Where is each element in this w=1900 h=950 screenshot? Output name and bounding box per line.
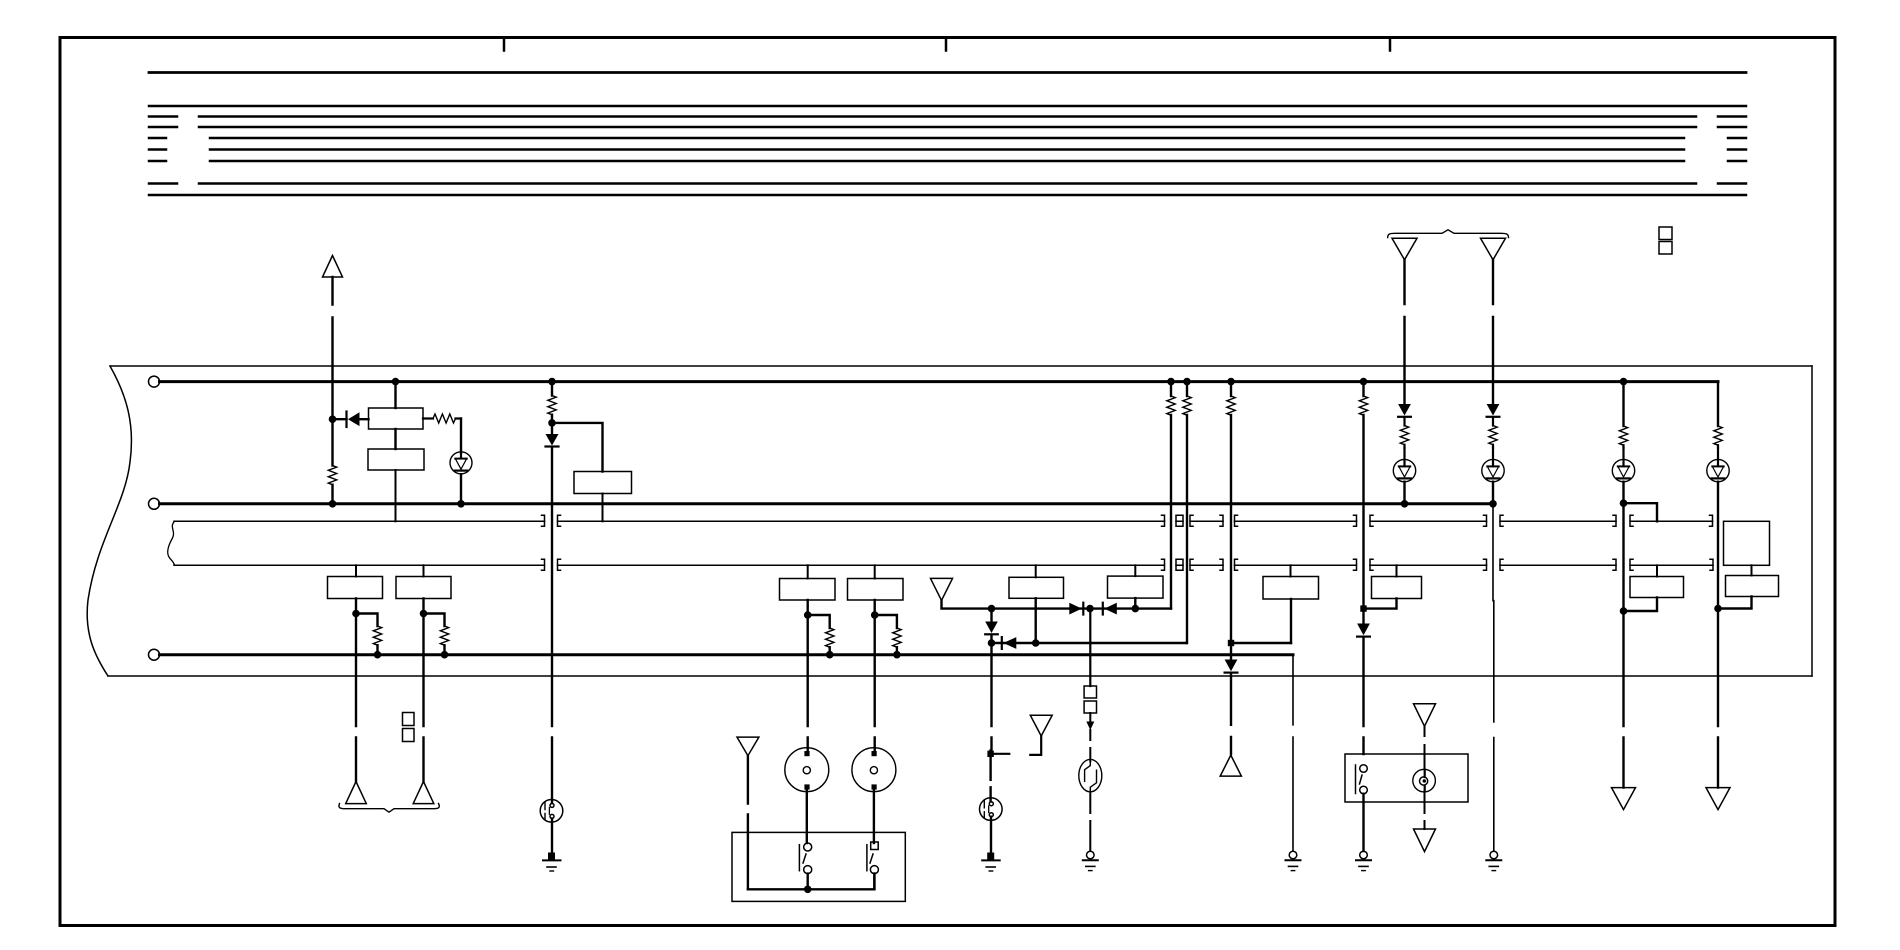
gauge M1 [785,748,829,792]
wire to bulb L3 [1089,730,1091,762]
resistor R11 (vertical x=1187) [1186,382,1188,396]
wire elbow to resistor R7 [424,614,445,627]
brace under triangles B,C [339,804,439,813]
node dot x=991 on y=608 [988,605,996,613]
wire band to relay K7 [1134,565,1136,576]
node dot x=874 elbow [871,611,879,619]
node square dot x=990 y=753 [987,751,993,757]
node dot bus3 x=377 [374,651,382,659]
node dot bus2 x=461 [457,500,465,508]
page connector triangle F (up) [1220,755,1241,776]
wire x=1623 down [1622,382,1624,426]
harness wire 7 [149,160,1746,163]
page connector triangle I (down) [1030,715,1052,736]
node dot bus1 x=1171 [1167,378,1175,386]
gauge M2 [852,748,896,792]
wire band to box K3 [807,565,809,578]
node dot x=1090 on y=608 [1086,605,1094,613]
relay box K11 [1630,577,1684,598]
connector square pair top right [1659,227,1672,240]
relay box R1b [368,449,424,470]
lamp L2 inside K10 [1413,769,1436,792]
node dot bus2 x=332 [329,500,337,508]
wire S5 to ground [990,817,992,853]
wire band to connector box K1 [355,565,357,576]
resistor R9 (vertical) [893,628,901,647]
node dot bus3 x=444 [441,651,449,659]
relay box K6 [1009,577,1064,598]
wire band to relay K8 [1290,565,1292,576]
harness wire 5 [149,137,1746,140]
wire band to relay K13 [1751,565,1753,575]
node dot x=807 elbow [804,611,812,619]
ground G1 (solid) [543,853,561,872]
wire x=1171 down to y=608 [1170,415,1172,609]
resistor R15 (vertical x=1493) [1492,418,1494,448]
wire triangle K down [1492,260,1494,404]
connector mark at x=1718 top line [1710,515,1713,526]
connector square pair left [403,713,415,726]
node dot bottom rail [804,886,812,894]
page connector triangle G (down) above lamp [1414,704,1436,727]
wire band to box K4 [874,565,876,578]
wire gauge M2 to switch [873,789,875,844]
wire bus3 [160,653,1294,656]
wire x=1090 from y=608 wire down [1089,609,1091,686]
wire x=1363 down [1362,415,1364,624]
connector marks at x=1363 bottom line [1354,559,1374,570]
node dot x=991 on y=642 [988,639,996,647]
wire x=1187 down elbow to y=642 [1185,415,1188,643]
wire S3 to bottom rail [873,874,875,890]
connector marks at x=1623 top line [1613,515,1633,526]
bulb L5 [1482,448,1504,482]
node dot bus1 x=395 [392,378,400,386]
node dot bus3 x=829 [826,651,834,659]
wire from triangle A down [331,277,333,419]
wire triangle J down [1403,260,1405,404]
resistor R13 (vertical x=1363) [1362,382,1364,396]
node dot bus3 x=896 [893,651,901,659]
wire K11 down elbow to x=1623 [1624,598,1658,612]
connector mark pair at x=552 bottom line [542,559,561,570]
wire R1b down to band [395,470,397,521]
wire L3 to ground [1089,792,1091,851]
bulb L6 [1612,448,1634,482]
page connector triangle H (down) below lamp [1414,829,1436,852]
diode D3 (pointing down) on x=991 [985,609,998,643]
page connector triangle M (down) [1706,788,1730,810]
diode D8 (pointing down) on x=1363 [1357,624,1370,755]
connector marks at x=1231 top line [1220,515,1238,526]
ground G6 (circle type) [1486,851,1501,870]
wire x=991 down across band edge [990,643,992,750]
wire K2 down [422,599,424,782]
wire x=552 down through band [551,448,553,804]
wire elbow to resistor R8 [808,615,830,628]
resistor R3 (vertical on x=332) [331,419,333,504]
diode D9 (pointing down) x=1404 [1398,404,1411,417]
node dot x=1623 y=503 [1620,499,1628,507]
harness wire 2 [149,105,1746,108]
connector marks at x=1493 top line [1484,515,1504,526]
wire band to relay K9 [1396,565,1398,576]
switch S1 (circle) [540,800,563,823]
small arrow marker x=1091 [1086,722,1094,731]
connector box K2 [396,577,451,599]
node dot x=1035 on y=642 [1032,639,1040,647]
relay box K8 [1263,577,1319,600]
wire triangle E elbow to x=1171 [942,600,1172,608]
wire x=1293 bus3 corner down [1292,655,1294,851]
wire bulb L1 to bus2 [460,474,462,504]
connector box K1 [328,577,383,599]
ground G5 (circle type) [1286,851,1301,870]
resistor R6 (vertical) [373,626,381,645]
switch S5 (circle) [980,798,1003,821]
connector box K3 [780,579,836,601]
node square dot x=1363 y=608 [1360,605,1366,611]
connector marks at x=1493 bottom line [1484,559,1504,570]
switch S3 contacts [867,842,879,874]
diode D5 (pointing left) on y=608 [1103,603,1117,615]
wire y=643 to rect E vertical [1231,642,1291,644]
page connector triangle L (down) [1612,788,1636,810]
elbow wire to relay K9 [1364,599,1397,609]
ground G2 (circle type) [1356,851,1371,870]
wire bus2 [160,502,1493,505]
diode D4 (pointing right) on y=608 [1069,603,1083,615]
page connector triangle A (up) [323,256,343,278]
switch stub right from x=990 [991,753,1010,755]
connector mark at x=1718 bottom line [1710,559,1713,570]
page connector triangle D (down) [737,737,759,756]
wire triangle G to K10 [1424,726,1426,769]
tall connector box K12 on band [1724,521,1770,565]
switch S4 inside K10 [1356,765,1368,794]
dashboard block bottom edge [108,675,1812,677]
connector marks at x=1623 bottom line [1613,559,1633,570]
wire x=1231 down [1230,415,1232,660]
wire K8 down to y=643 wire [1290,599,1292,643]
connector box K4 [848,579,904,601]
wire S2 to bottom rail [807,874,809,890]
node square dot x=1231 y=643 [1228,640,1234,646]
wire band to connector box K2 [423,565,425,576]
node dot bus1 x=1187 [1183,378,1191,386]
wire K7 down to y=608 [1134,598,1136,609]
node dot x=552 elbow [548,419,556,427]
wire bulb L6 down [1622,482,1624,788]
resistor R8 (vertical) [826,628,834,647]
node dot bus1 x=1231 [1227,378,1235,386]
connector square pair x=1091 [1084,686,1096,698]
wire elbow to relay R5 [552,423,603,472]
connector marks at x=1187 bottom line [1180,559,1193,570]
elbow x=1718 to relay K13 [1718,597,1752,609]
relay box K13 [1726,576,1779,597]
wire harness bundle lines [149,106,1746,195]
connector marks at x=1171 bottom line [1162,559,1180,570]
wire below squares [1089,713,1091,722]
switch S2 contacts [799,843,811,874]
node dot bus2 x=1493 [1489,500,1497,508]
harness wire 8 [149,182,1746,185]
node dot x=1135 on y=608 [1132,605,1140,613]
relay box R5 [574,472,632,494]
wire S1 to ground [551,819,553,853]
resistor R10 (vertical x=1171) [1170,382,1172,396]
wire R5 down to band [602,494,604,522]
harness wire 4 [149,126,1746,129]
relay box K7 [1108,576,1164,598]
inner harness band bottom line [174,564,1713,566]
inner harness band left brace [168,521,175,565]
bottom rail wire in box [748,874,875,890]
wire bus1 [160,380,1719,383]
dashboard block right edge [1811,366,1813,676]
node bus2 terminal circle [149,498,160,509]
page connector triangle B (up) [346,782,367,804]
page connector triangle C (up) [413,782,434,804]
switch box K5 [732,832,905,901]
border tick 3 [1389,38,1392,51]
wire band to relay K11 [1656,565,1658,576]
connector marks at x=1171 top line [1162,515,1180,526]
wire resistor to bulb L1 [460,419,462,453]
diode D7 (pointing down) on x=1231 [1225,660,1238,754]
wire lamp L2 down [1424,791,1426,829]
wire K6 down to y=642 [1034,598,1036,643]
wire switch S4 to ground [1362,794,1364,851]
node dot x=356 elbow [352,610,360,618]
wire y=642 horizontal [992,642,1187,644]
bulb L7 [1707,448,1729,482]
wire K1 down [355,599,357,782]
connector marks at x=1231 bottom line [1220,559,1238,570]
wire triangle I elbow left [1030,736,1041,755]
wire x=990 lower section [989,750,991,801]
bulb L3 (oval) [1079,759,1102,792]
node dot bus1 x=552 [548,378,556,386]
wire R1a to R1b [394,429,396,449]
connector marks at x=1363 top line [1354,515,1374,526]
inner harness band top line [174,520,1713,522]
diode D10 (pointing down) x=1493 [1487,404,1500,417]
resistor R2 (horizontal) [423,417,461,419]
relay box K9 [1372,577,1422,599]
brace over triangles [1388,230,1509,238]
resistor R16 (vertical x=1623) [1619,426,1627,445]
resistor R14 (vertical x=1404) [1403,418,1405,448]
diode D1 (pointing left) [333,412,369,428]
ground G3 (solid) [982,853,1000,872]
harness wire 3 [149,115,1746,118]
wire band to relay K6 [1035,565,1037,577]
resistor R4 (vertical) [551,382,553,423]
border tick 1 [503,38,506,51]
bus1 corner wire x=1718 [1717,382,1719,426]
bulb L1 [450,452,472,474]
resistor R17 (vertical x=1718) [1714,426,1722,445]
resistor R12 (vertical x=1231) [1230,382,1232,396]
connector mark pair at x=552 top line [542,515,561,526]
wire harness bundle top line [149,71,1746,74]
node junction dot x=332 diode [329,415,337,423]
dashboard block torn left edge [87,366,131,676]
wire bulb L4 to bus2 [1403,482,1405,504]
resistor R7 (vertical) [440,626,448,645]
harness wire 9 [149,194,1746,197]
page connector triangle J (down) [1392,238,1417,259]
interior light box K10 [1345,754,1468,802]
node dot bus2 x=1404 [1401,500,1409,508]
elbow x=1623 to band top line [1624,503,1658,521]
wire elbow to resistor R9 [875,615,897,628]
bulb L4 [1393,448,1415,482]
ground G4 (circle type) [1083,851,1098,870]
node bus1 terminal circle [149,376,160,387]
wire triangle D down into box [747,756,749,890]
connector marks at x=1187 top line [1180,515,1193,526]
diode D2 (pointing down) on x=552 [546,423,559,447]
wire K3 down [807,600,809,752]
wire gauge M1 to switch [806,789,808,844]
wire elbow to resistor R6 [356,614,378,627]
wire bus1 to R1a [394,382,396,408]
node dot bus1 x=1363 [1360,378,1368,386]
page connector triangle E (down) [931,578,953,600]
wire K4 down [874,600,876,752]
wire x=1493 below bus2 [1492,504,1495,851]
connector marks on band lines [542,515,1714,570]
node dot x=423 elbow [420,610,428,618]
node bus3 terminal circle [149,649,160,660]
dashboard block top edge [87,366,1812,676]
border tick 2 [945,38,948,51]
node dot bus1 x=1623 [1620,378,1628,386]
diode D6 (pointing left) on y=642 [1002,637,1017,649]
wire bulb L7 down [1717,482,1719,788]
wire bulb L5 to bus2 end [1492,482,1494,504]
node dot x=1623 y=611 [1620,607,1628,615]
page connector triangle K (down) [1481,238,1506,259]
harness wire 6 [149,148,1746,151]
node dot x=1718 y=608 [1714,605,1722,613]
relay box R1a [369,408,424,429]
